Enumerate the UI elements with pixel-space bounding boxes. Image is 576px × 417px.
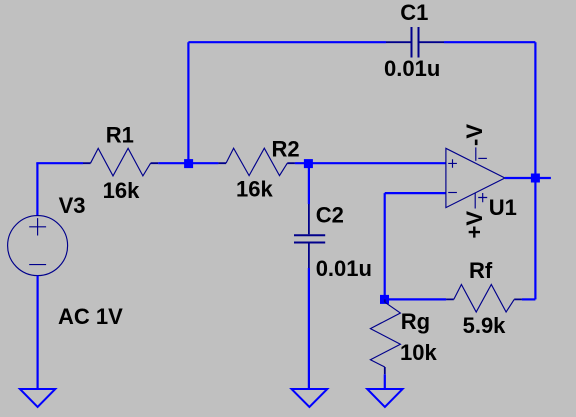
wire	[444, 41, 535, 43]
wire	[308, 268, 310, 389]
node junction	[184, 159, 193, 168]
resistor R2	[218, 148, 295, 175]
node junction	[304, 159, 313, 168]
wire	[36, 276, 38, 389]
svg-text:0.01u: 0.01u	[384, 56, 440, 81]
wire	[36, 162, 83, 164]
svg-text:C2: C2	[316, 202, 344, 227]
wire	[384, 193, 386, 295]
svg-text:Rg: Rg	[401, 309, 430, 334]
svg-text:10k: 10k	[400, 340, 437, 365]
svg-text:5.9k: 5.9k	[463, 313, 507, 338]
svg-text:R2: R2	[272, 137, 300, 162]
svg-text:-V: -V	[462, 124, 487, 146]
wire	[308, 163, 310, 204]
svg-text:0.01u: 0.01u	[316, 256, 372, 281]
capacitor C2	[294, 235, 325, 242]
wire	[36, 163, 38, 216]
svg-text:C1: C1	[400, 0, 428, 25]
wire	[505, 177, 551, 179]
svg-text:Rf: Rf	[469, 258, 493, 283]
resistor R1	[83, 148, 158, 176]
wire	[522, 298, 536, 300]
resistor Rg	[370, 299, 400, 374]
wire	[384, 374, 386, 389]
svg-text:+V: +V	[462, 211, 487, 239]
wire	[295, 162, 446, 164]
op-amp U1	[446, 147, 505, 208]
node junction	[531, 174, 540, 183]
ground	[20, 389, 55, 407]
resistor Rf	[446, 285, 522, 313]
ground	[367, 389, 402, 407]
wire	[158, 162, 218, 164]
wire	[385, 298, 446, 300]
svg-text:16k: 16k	[103, 178, 140, 203]
svg-text:AC 1V: AC 1V	[58, 304, 123, 329]
ground	[292, 389, 328, 407]
voltage source V3	[8, 216, 68, 276]
wire	[187, 42, 189, 163]
svg-text:16k: 16k	[236, 176, 273, 201]
svg-text:U1: U1	[489, 195, 517, 220]
svg-text:R1: R1	[106, 123, 134, 148]
svg-text:V3: V3	[59, 193, 86, 218]
capacitor C1	[412, 27, 419, 58]
wire	[534, 42, 536, 299]
node junction	[380, 295, 389, 304]
wire	[385, 192, 446, 194]
wire	[188, 41, 386, 43]
